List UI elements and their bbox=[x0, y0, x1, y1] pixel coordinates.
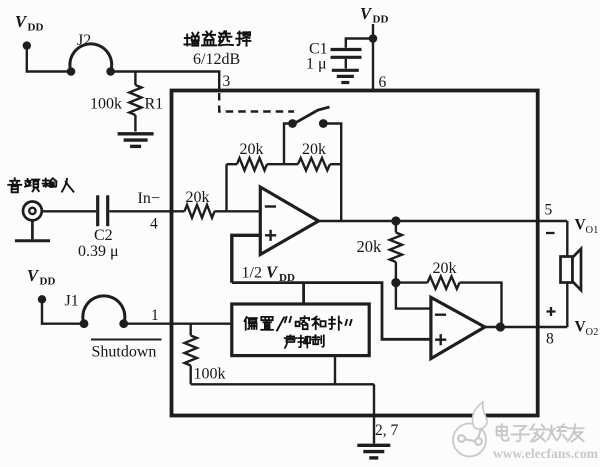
capacitor C1 1u bbox=[306, 39, 373, 73]
wire node to U1B inverting input bbox=[396, 283, 431, 309]
label VO2 bbox=[575, 319, 599, 339]
svg-text:J1: J1 bbox=[65, 293, 79, 310]
node junction on output bbox=[391, 216, 400, 225]
resistor 20k (U1B feedback) bbox=[396, 260, 502, 327]
svg-text:100k: 100k bbox=[194, 366, 226, 383]
wire VDD to pin 6 bbox=[372, 24, 374, 91]
svg-text:DD: DD bbox=[28, 22, 44, 34]
gain switch S1 bbox=[288, 107, 329, 128]
svg-text:8: 8 bbox=[546, 331, 554, 348]
svg-text:20k: 20k bbox=[186, 189, 210, 206]
svg-text:4: 4 bbox=[150, 216, 158, 233]
branch rail to bias box bbox=[302, 283, 305, 304]
wire switch right to output node bbox=[323, 124, 341, 222]
speaker minus mark bbox=[546, 232, 555, 234]
IC outline box U1 bbox=[172, 91, 538, 416]
feedback line with resistors bbox=[227, 163, 238, 165]
wire feedback node down to inverting input bbox=[225, 164, 227, 211]
wire speaker to pin8 corner bbox=[566, 283, 568, 328]
wire 20k to op-amp inverting input bbox=[215, 210, 261, 212]
svg-text:3: 3 bbox=[223, 73, 231, 90]
wire VDD to J2 bbox=[27, 46, 68, 72]
wire between feedback resistors bbox=[267, 163, 298, 165]
ground (R1) bbox=[118, 134, 154, 147]
speaker plus mark bbox=[547, 307, 556, 316]
svg-text:6: 6 bbox=[379, 74, 387, 91]
op-amp U1B bbox=[431, 297, 485, 358]
op-amp U1A bbox=[260, 187, 318, 255]
svg-text:100k: 100k bbox=[90, 96, 122, 113]
svg-text:0.39 μ: 0.39 μ bbox=[78, 243, 119, 260]
svg-text:DD: DD bbox=[279, 272, 295, 284]
wire U1A output to pin 5 bbox=[319, 220, 568, 222]
svg-text:5: 5 bbox=[545, 202, 553, 219]
ground (pins 2,7) bbox=[357, 445, 390, 458]
resistor 20k (divider) bbox=[357, 221, 403, 283]
wire J2 to pin 3 bbox=[111, 72, 220, 91]
resistor 100k (shutdown pulldown) bbox=[185, 324, 226, 385]
node junction on U1B output bbox=[496, 322, 505, 331]
svg-text:O2: O2 bbox=[586, 327, 599, 338]
node junction VDD/C1 bbox=[369, 34, 378, 43]
svg-text:1 μ: 1 μ bbox=[306, 56, 327, 73]
resistor 20k (input) bbox=[185, 189, 215, 218]
label gain-select CJK (zeng yi xuan ze) bbox=[184, 31, 250, 45]
svg-text:6/12dB: 6/12dB bbox=[193, 51, 240, 68]
wire non-inverting input to half-VDD rail bbox=[232, 235, 260, 282]
wire pin5 corner to speaker bbox=[566, 221, 568, 257]
svg-text:20k: 20k bbox=[302, 141, 326, 158]
half-VDD rail to U1B non-inverting input bbox=[232, 283, 431, 340]
svg-text:R1: R1 bbox=[145, 96, 164, 113]
input jack J3 bbox=[15, 202, 50, 241]
wire U1B output to pin 8 bbox=[485, 326, 568, 328]
ground (C1) bbox=[332, 70, 359, 82]
label In- / pin 4 bbox=[138, 190, 160, 233]
resistor R1 100k bbox=[90, 72, 163, 132]
resistor 20k (feedback B) bbox=[298, 141, 330, 170]
svg-text:www.elecfans.com: www.elecfans.com bbox=[493, 446, 599, 461]
power VDD (bottom-left) bbox=[27, 266, 55, 303]
bias / click-pop suppression block bbox=[232, 304, 369, 356]
svg-text:2, 7: 2, 7 bbox=[375, 422, 399, 439]
label VO1 bbox=[575, 217, 599, 237]
wire C2 to 20k input resistor bbox=[109, 210, 184, 212]
capacitor C2 0.39u bbox=[78, 195, 119, 260]
svg-text:DD: DD bbox=[40, 276, 56, 288]
svg-text:20k: 20k bbox=[240, 141, 264, 158]
wire bias box to bottom net bbox=[334, 356, 336, 385]
wire bottom net to pins 2,7 ground bbox=[373, 384, 375, 443]
wire VDD to J1 bbox=[42, 299, 81, 323]
power VDD (top-right) bbox=[360, 4, 388, 26]
svg-text:C2: C2 bbox=[94, 227, 113, 244]
label Shutdown with overline bbox=[91, 340, 162, 361]
node junction mid divider bbox=[391, 278, 400, 287]
watermark text CJK (dian zi fa shao you) bbox=[497, 424, 584, 441]
svg-text:20k: 20k bbox=[357, 237, 383, 256]
svg-text:DD: DD bbox=[373, 14, 389, 26]
svg-text:O1: O1 bbox=[586, 225, 599, 236]
label gain-select 6/12dB bbox=[193, 51, 240, 68]
label 1/2 VDD bbox=[242, 263, 295, 285]
wire switch left to feedback node bbox=[284, 124, 292, 165]
svg-text:1/2: 1/2 bbox=[242, 265, 262, 282]
wire J1 to bias box (pin 1) bbox=[124, 323, 232, 325]
svg-text:20k: 20k bbox=[433, 260, 457, 277]
jumper J2 bbox=[67, 32, 115, 76]
svg-text:Shutdown: Shutdown bbox=[92, 344, 157, 361]
label audio input CJK (yin pin shu ru) bbox=[8, 178, 73, 192]
wire bottom bias net bbox=[191, 383, 374, 385]
bias box text line2 CJK bbox=[285, 335, 324, 348]
bias box text line1 CJK bbox=[245, 316, 352, 330]
power VDD (top-left) bbox=[15, 12, 43, 50]
svg-text:In−: In− bbox=[138, 190, 160, 207]
svg-text:1: 1 bbox=[151, 307, 159, 324]
watermark logo circle bbox=[453, 402, 487, 457]
dashed control line from pin 3 bbox=[219, 93, 294, 112]
jumper J1 bbox=[65, 293, 129, 329]
speaker LS1 bbox=[561, 249, 582, 290]
resistor 20k (feedback A) bbox=[237, 141, 267, 170]
wire feedback B to switch-right vertical bbox=[330, 163, 341, 165]
wire jack to C2 bbox=[42, 210, 96, 212]
